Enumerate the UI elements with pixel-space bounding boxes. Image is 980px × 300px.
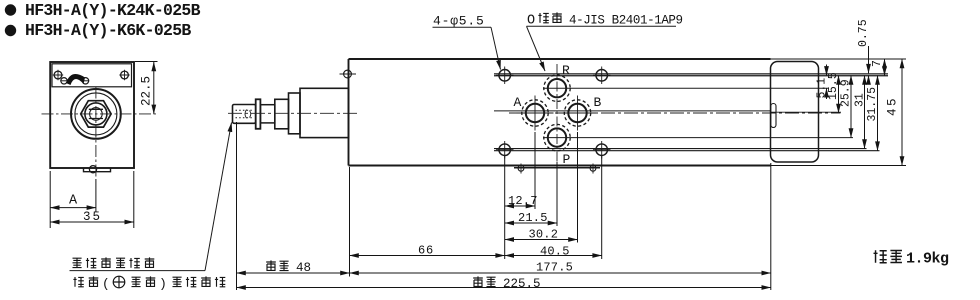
cap block C xyxy=(300,88,349,137)
body outline xyxy=(349,59,771,166)
tip end arcs xyxy=(245,110,251,119)
ext col end block right xyxy=(770,163,772,290)
P port line xyxy=(543,137,853,139)
slot circle xyxy=(90,108,103,121)
lever screw left xyxy=(61,78,67,84)
R port xyxy=(548,79,566,97)
ext line center (A) xyxy=(95,179,97,212)
step block A xyxy=(275,99,289,129)
dim 12.7 xyxy=(505,205,535,207)
R port line xyxy=(543,87,829,89)
bolt hole top-left xyxy=(499,70,511,82)
gasket pin right xyxy=(590,165,596,171)
front view centerline vertical xyxy=(95,87,97,178)
ext col B xyxy=(577,132,579,243)
dim text max 225.5 xyxy=(473,276,483,286)
bottom gasket line xyxy=(514,167,600,169)
inner circle xyxy=(85,103,107,125)
dim 25.9 xyxy=(850,75,852,137)
svg-text:A: A xyxy=(69,194,78,209)
ext col right holes xyxy=(601,156,603,259)
ext line left bottom xyxy=(49,171,51,228)
leader to screw xyxy=(205,123,232,271)
svg-text:15.5: 15.5 xyxy=(827,72,840,100)
mounting face line upper xyxy=(494,73,888,75)
svg-text:31.75: 31.75 xyxy=(866,87,879,122)
step line 31 xyxy=(494,148,867,150)
dim line A xyxy=(50,207,96,209)
svg-text:R: R xyxy=(562,63,570,78)
svg-text:HF3H-A(Y)-K24K-025B: HF3H-A(Y)-K24K-025B xyxy=(25,1,201,20)
tab circle xyxy=(89,166,96,173)
svg-text:225.5: 225.5 xyxy=(503,277,541,291)
step line above A/B xyxy=(494,110,771,112)
ext line right bottom (35) xyxy=(133,171,135,228)
locknut flange xyxy=(256,99,261,129)
black lever arc xyxy=(66,74,85,85)
main axis centerline xyxy=(228,112,357,114)
svg-text:A: A xyxy=(514,95,522,110)
svg-text:4-JIS B2401-1AP9: 4-JIS B2401-1AP9 xyxy=(569,14,683,28)
bottom tab xyxy=(84,168,111,172)
svg-text:(: ( xyxy=(102,277,110,292)
bullet 2 xyxy=(5,25,16,36)
knob outer circle xyxy=(71,89,121,139)
svg-text:P: P xyxy=(563,152,571,167)
dim 7 xyxy=(884,59,886,75)
hex nut xyxy=(81,101,111,127)
ext col A ports xyxy=(534,132,536,209)
dim 5.1 outside arrows xyxy=(826,65,828,76)
bolt hole top-right xyxy=(596,70,608,82)
svg-text:25.9: 25.9 xyxy=(840,79,853,107)
shaft xyxy=(260,105,274,123)
axis centerline through ports xyxy=(509,112,841,114)
dim 31 xyxy=(864,75,866,148)
ext col left holes xyxy=(504,156,506,259)
svg-text:B: B xyxy=(594,95,602,110)
bottom holes line 31.75 xyxy=(494,150,880,152)
A port xyxy=(526,104,544,122)
bullet 1 xyxy=(5,4,16,15)
bottom edge ext to 45 xyxy=(771,165,907,167)
dim line 35 xyxy=(50,221,134,223)
svg-text:22.5: 22.5 xyxy=(140,76,154,106)
leader underline xyxy=(70,270,206,272)
mounting face line lower xyxy=(494,75,888,77)
svg-text:21.5: 21.5 xyxy=(518,211,548,225)
threaded tip xyxy=(233,105,256,124)
text: turn left flow increase (pseudo glyphs + symbols) xyxy=(73,276,225,291)
svg-text:45: 45 xyxy=(886,96,900,116)
svg-text:35: 35 xyxy=(83,210,102,224)
svg-text:30.2: 30.2 xyxy=(529,228,559,242)
dim text max 48 (pseudo CJK + number) xyxy=(266,260,276,270)
P port xyxy=(548,128,566,146)
dim 15.5 xyxy=(838,75,840,113)
dim 66 xyxy=(350,255,505,257)
dim 0.75 outside arrows xyxy=(868,46,870,73)
front view centerline horizontal xyxy=(42,113,158,115)
svg-text:): ) xyxy=(159,277,167,292)
thread dotted lines xyxy=(236,109,253,111)
bolt hole bottom-right xyxy=(596,144,608,156)
dim max 225.5 xyxy=(237,287,771,289)
underline xyxy=(433,26,492,28)
dim 31.75 xyxy=(877,75,879,150)
svg-text:40.5: 40.5 xyxy=(540,245,570,259)
svg-text:7: 7 xyxy=(871,60,884,67)
leader arrow to R o-ring xyxy=(527,26,546,71)
ext line x=349.5 (body left) xyxy=(349,167,351,277)
AB ext to 15.5 dim xyxy=(771,111,842,113)
dim max48 xyxy=(237,272,350,274)
top-left pin xyxy=(344,70,352,78)
dim 30.2 xyxy=(505,239,578,241)
svg-text:HF3H-A(Y)-K6K-025B: HF3H-A(Y)-K6K-025B xyxy=(25,21,191,40)
nameplate xyxy=(52,64,132,87)
A port crosshair xyxy=(517,96,554,131)
svg-text:1.9kg: 1.9kg xyxy=(906,251,949,268)
svg-text:12.7: 12.7 xyxy=(508,194,538,208)
knob inner ring xyxy=(75,93,117,135)
end block lens bump xyxy=(771,104,776,128)
svg-text:66: 66 xyxy=(418,244,434,258)
step block B xyxy=(289,93,301,134)
lever screw right xyxy=(82,78,88,84)
leader arrow to bolt hole xyxy=(491,27,501,69)
dim 45 xyxy=(901,59,903,166)
ext col R/P xyxy=(556,162,558,226)
underline xyxy=(527,25,677,27)
dim line 22.5 xyxy=(153,62,155,114)
dim 177.5 xyxy=(350,272,771,274)
svg-text:4-φ5.5: 4-φ5.5 xyxy=(433,14,485,29)
dim 21.5 xyxy=(505,222,557,224)
slot lines xyxy=(89,109,103,118)
B port xyxy=(568,104,586,122)
valve body front outline xyxy=(50,62,134,168)
end block (right) xyxy=(771,62,819,163)
svg-text:31: 31 xyxy=(854,93,867,107)
nameplate screw right xyxy=(121,71,129,79)
B port crosshair xyxy=(559,96,596,131)
text: flow adjust screw (pseudo glyphs) xyxy=(73,257,155,267)
R/P vertical centerline xyxy=(556,64,558,162)
gasket pin left xyxy=(518,165,524,171)
bolt hole bottom-left xyxy=(499,144,511,156)
ext line top right (22.5) xyxy=(135,61,158,63)
svg-text:48: 48 xyxy=(296,261,311,275)
svg-text:177.5: 177.5 xyxy=(536,261,573,275)
svg-text:0.75: 0.75 xyxy=(857,19,870,47)
dim 40.5 xyxy=(505,255,602,257)
nameplate screw left xyxy=(54,71,62,79)
ext line x=236.5 (screw tip) xyxy=(236,122,238,290)
top edge ext to 45 xyxy=(771,58,907,60)
